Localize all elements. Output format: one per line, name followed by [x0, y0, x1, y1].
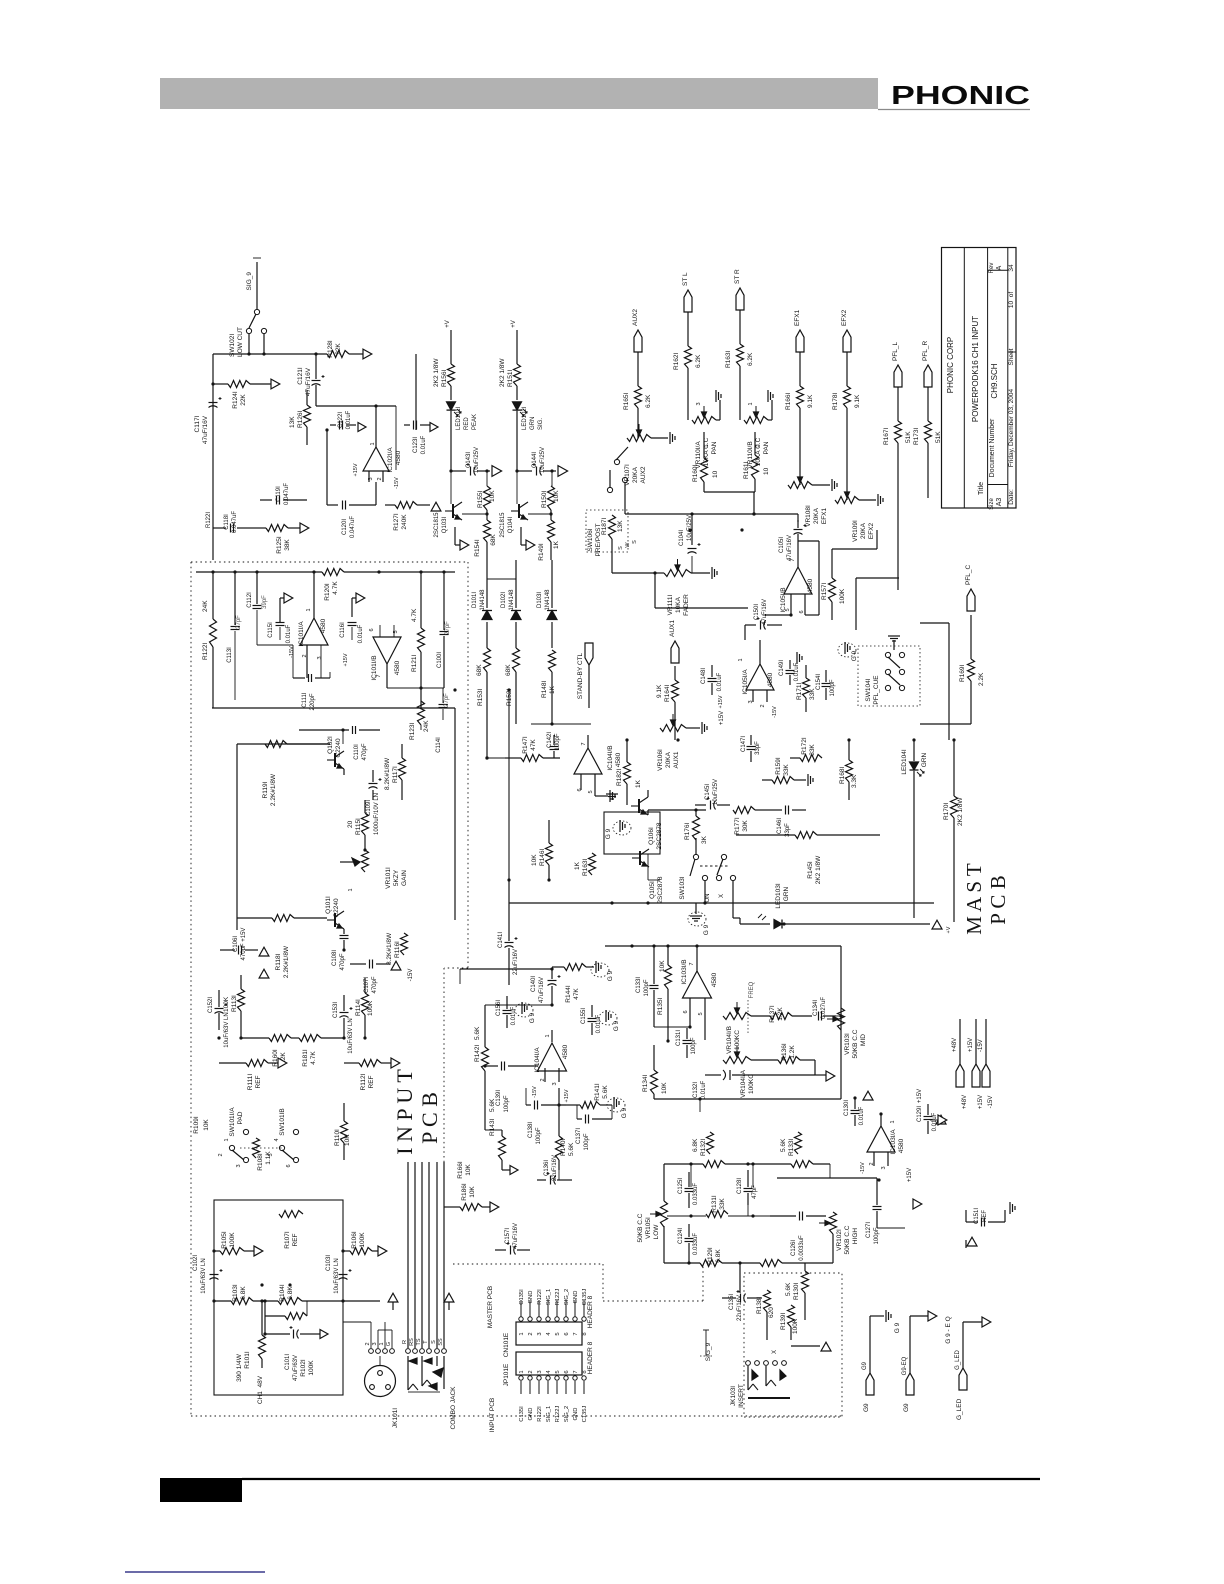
svg-text:R136I: R136I [781, 1043, 788, 1061]
svg-text:AUX2: AUX2 [632, 309, 639, 326]
combo jack body [408, 1356, 457, 1429]
svg-text:4580: 4580 [562, 1044, 569, 1059]
svg-text:R108I: R108I [257, 1153, 264, 1171]
svg-text:C120I: C120I [342, 519, 348, 535]
svg-text:0.01uF: 0.01uF [346, 410, 352, 429]
svg-text:22K: 22K [335, 343, 342, 355]
svg-text:22K: 22K [240, 394, 247, 406]
resistor R127I 240K [385, 502, 430, 531]
svg-text:C132I: C132I [693, 1082, 699, 1098]
svg-text:GAIN: GAIN [401, 870, 408, 886]
net AUX2 w/ R165I [623, 309, 652, 438]
resistor R139I 100K [780, 1305, 799, 1340]
svg-text:+15V: +15V [719, 711, 725, 725]
svg-text:0.047uF: 0.047uF [284, 483, 290, 505]
capacitor C147I 33pF [741, 735, 761, 762]
svg-text:REF: REF [255, 1075, 262, 1088]
svg-text:C138I: C138I [528, 1122, 534, 1138]
svg-text:1K: 1K [553, 540, 560, 549]
capacitor C116I 0.01uF [340, 622, 364, 643]
capacitor C140I 47uF/16V [460, 969, 561, 1005]
svg-text:+48V: +48V [962, 1095, 968, 1109]
svg-text:33K: 33K [719, 1198, 726, 1210]
svg-text:G_LED: G_LED [955, 1350, 961, 1370]
wire ic105b loop [856, 549, 899, 630]
svg-text:R103I: R103I [232, 1284, 239, 1302]
wire mast h2 [549, 875, 592, 880]
capacitor C119I 0.047uF [260, 483, 307, 505]
svg-text:R113I: R113I [231, 995, 238, 1012]
svg-text:R167I: R167I [883, 427, 890, 445]
net PFL_R w/ R173I [913, 340, 942, 498]
svg-text:3: 3 [537, 1332, 543, 1335]
svg-text:6.2K: 6.2K [695, 354, 702, 368]
svg-text:C134I: C134I [813, 1000, 819, 1016]
svg-text:PAD: PAD [237, 1111, 244, 1124]
svg-text:2: 2 [377, 477, 383, 480]
svg-text:C110I: C110I [354, 744, 360, 760]
resistor R157I 100K [821, 530, 877, 620]
svg-text:I N P U T: I N P U T [392, 1069, 417, 1155]
ground G9 R144I [591, 961, 614, 981]
svg-text:10K: 10K [531, 854, 538, 866]
resistor R134I 10K [642, 1045, 668, 1099]
svg-text:Document Number: Document Number [989, 418, 996, 477]
switch SW101I/A PAD [218, 1107, 249, 1168]
svg-text:-15V: -15V [289, 646, 295, 658]
svg-text:10KA: 10KA [675, 596, 682, 613]
ground R159I [808, 774, 813, 786]
svg-text:0.01uF: 0.01uF [358, 624, 364, 643]
svg-text:6: 6 [799, 610, 805, 613]
svg-text:6.8K: 6.8K [240, 1286, 247, 1300]
svg-text:50KB C.C: 50KB C.C [637, 1213, 644, 1242]
svg-text:2.2K#1/8W: 2.2K#1/8W [283, 945, 290, 978]
svg-text:REF: REF [292, 1233, 299, 1246]
svg-text:CH1 48V: CH1 48V [257, 1375, 264, 1404]
svg-text:R162I: R162I [673, 352, 680, 370]
resistor R151I 2K2 1/8W [499, 358, 521, 400]
svg-text:R157I: R157I [821, 582, 828, 600]
LED LED103I GRN [733, 883, 800, 928]
svg-text:C108I: C108I [332, 950, 338, 966]
resistor R111I REF [219, 1060, 278, 1091]
wire gain stage frame [212, 708, 455, 930]
svg-text:X: X [719, 894, 725, 898]
connector arrow R111I [278, 1058, 287, 1068]
ground IC104I/B [595, 790, 615, 802]
capacitor C135I 22uF/16V [722, 1290, 762, 1321]
svg-text:+15V: +15V [917, 1089, 923, 1103]
svg-text:C2240: C2240 [333, 898, 340, 918]
resistor R176I 3K [648, 808, 708, 844]
svg-text:38K: 38K [284, 539, 291, 551]
svg-text:C127I: C127I [866, 1222, 872, 1238]
svg-text:C114I: C114I [436, 737, 442, 753]
svg-text:R101I: R101I [244, 1351, 251, 1369]
svg-text:R124I: R124I [232, 391, 239, 409]
svg-text:C139I: C139I [496, 1090, 502, 1106]
connector arrow C129I [936, 1115, 946, 1124]
connector arrow jack feed1 [380, 1293, 398, 1322]
svg-text:0.01uF: 0.01uF [794, 662, 800, 681]
svg-text:R130I: R130I [793, 1282, 800, 1300]
svg-text:620: 620 [768, 1307, 775, 1318]
svg-text:8.2K#1/8W: 8.2K#1/8W [384, 757, 391, 790]
svg-text:+15V: +15V [353, 463, 359, 476]
label MAST PCB big [962, 863, 1010, 935]
transistor Q104I 2SC1815 [500, 440, 528, 538]
logo PHONIC [878, 80, 1030, 110]
svg-text:C148I: C148I [701, 668, 707, 684]
capacitor C104I 10uF/25V [679, 515, 701, 554]
wire C121 node [316, 404, 396, 470]
svg-text:R109I: R109I [193, 1116, 200, 1134]
svg-text:4.7K: 4.7K [411, 608, 418, 622]
svg-text:LED103I: LED103I [775, 883, 782, 908]
wire center long h1 [455, 689, 509, 691]
svg-text:Q105I: Q105I [649, 881, 656, 899]
svg-text:R186I: R186I [461, 1183, 468, 1201]
svg-text:C155I: C155I [581, 1008, 587, 1024]
capacitor C142I 100pF [547, 732, 561, 758]
svg-text:0.01uF: 0.01uF [511, 1006, 517, 1025]
svg-text:100K: 100K [367, 1000, 374, 1016]
svg-text:R149I: R149I [538, 543, 545, 561]
svg-text:24K: 24K [202, 600, 209, 612]
svg-text:1: 1 [519, 1332, 525, 1335]
svg-text:C119I: C119I [276, 486, 282, 502]
svg-text:2SC1815: 2SC1815 [500, 512, 506, 538]
resistor R137I 1.2K [751, 1005, 812, 1023]
resistor R120I 4.7K [322, 569, 455, 601]
svg-text:C131I: C131I [676, 1030, 682, 1046]
resistor R145I 2K2 1/8W [736, 832, 880, 885]
svg-text:3: 3 [755, 444, 761, 447]
svg-text:4580: 4580 [898, 1138, 905, 1153]
diode D101I 1N4148 [472, 579, 516, 648]
resistor R154I 68K [474, 520, 497, 579]
svg-text:ST R: ST R [734, 269, 741, 284]
resistor R117I 8.2K#1/8W [384, 744, 406, 800]
svg-text:SIG_9: SIG_9 [246, 272, 253, 291]
svg-text:R132I: R132I [700, 1138, 707, 1156]
svg-text:COMBO JACK: COMBO JACK [450, 1386, 457, 1430]
pot VR110I/A 10KA C.C PAN [692, 402, 718, 468]
svg-text:R156I: R156I [441, 369, 448, 387]
svg-text:2: 2 [365, 1342, 371, 1345]
capacitor C130I 0.01uF [844, 1098, 865, 1126]
svg-text:R121I: R121I [411, 654, 418, 672]
SW106I dotted box [586, 510, 628, 552]
svg-text:VR105I: VR105I [645, 1217, 652, 1239]
resistor R163I 1K [570, 853, 596, 876]
svg-text:39pF: 39pF [262, 595, 268, 609]
svg-text:R106I: R106I [351, 1231, 358, 1249]
svg-text:C150I: C150I [754, 604, 760, 620]
svg-text:+15V: +15V [718, 695, 724, 708]
resistor R146I 10K [531, 820, 553, 880]
svg-text:4: 4 [274, 1138, 280, 1141]
svg-text:+V: +V [946, 926, 952, 933]
net EFX1 w/ R166I [785, 309, 814, 485]
capacitor C102I 10uF/63V LN [193, 1255, 223, 1294]
svg-text:C117I: C117I [194, 415, 201, 432]
svg-text:1: 1 [224, 1138, 230, 1141]
connector arrow R125I [300, 523, 309, 533]
svg-text:R140I: R140I [560, 1138, 567, 1156]
capacitor C150I 47uF/16V [745, 599, 782, 630]
connector CN101E [503, 1289, 588, 1358]
svg-text:27pF: 27pF [444, 693, 450, 707]
resistor eq2 r4 [760, 1260, 782, 1267]
connector arrow C130I [863, 1091, 873, 1100]
svg-text:C154I: C154I [816, 674, 822, 690]
resistor R129I bus [700, 1260, 722, 1267]
wire fader chain [655, 567, 748, 608]
svg-text:SW106I: SW106I [587, 528, 594, 551]
svg-text:+15V: +15V [343, 653, 349, 666]
net +48V [952, 1019, 968, 1109]
svg-text:Friday, December 03, 2004: Friday, December 03, 2004 [1008, 388, 1015, 467]
svg-text:G 9: G 9 [703, 924, 710, 935]
svg-text:34: 34 [1008, 264, 1015, 272]
svg-text:R123I: R123I [409, 722, 416, 740]
svg-text:R120I: R120I [324, 583, 331, 601]
svg-text:4580: 4580 [395, 450, 402, 465]
svg-text:Size: Size [989, 498, 995, 510]
svg-text:33pF: 33pF [755, 741, 761, 755]
svg-text:0.01uF: 0.01uF [701, 1080, 707, 1099]
svg-text:R150I: R150I [541, 490, 548, 508]
capacitor C111I 220pF [293, 645, 330, 711]
ground G9 C155I [599, 1010, 620, 1031]
net PFL_L w/ R167I [883, 341, 912, 498]
svg-text:HEADER 8: HEADER 8 [587, 1341, 594, 1374]
svg-text:R170I: R170I [943, 802, 950, 820]
svg-text:VR104I/B: VR104I/B [726, 1026, 733, 1054]
switch SW101I/B [240, 1108, 299, 1167]
svg-text:R154I: R154I [474, 539, 481, 557]
svg-text:Q102I: Q102I [327, 736, 334, 754]
svg-text:C124I: C124I [678, 1228, 684, 1244]
wire mast bottom [652, 1094, 702, 1112]
resistor R164I 9.1K [656, 666, 679, 740]
svg-text:EFX1: EFX1 [821, 507, 828, 524]
connector JP101E [503, 1352, 588, 1422]
svg-text:CH9.SCH: CH9.SCH [990, 363, 999, 398]
ground G9 SW103 [688, 903, 710, 935]
svg-text:GND: GND [528, 1408, 534, 1421]
connector arrow C106I [259, 947, 269, 956]
svg-text:Date:: Date: [1008, 489, 1015, 505]
svg-text:-15V: -15V [772, 706, 778, 718]
svg-text:5KZY: 5KZY [393, 869, 400, 886]
svg-text:C111I: C111I [302, 692, 308, 707]
svg-text:R177I: R177I [734, 817, 741, 835]
svg-text:R128I: R128I [327, 340, 334, 358]
svg-text:10K: 10K [489, 490, 496, 502]
transistor Q105I 2SC2878 [604, 794, 664, 904]
svg-text:R139I: R139I [780, 1312, 787, 1330]
MASTER PCB dotted boundary [453, 1264, 703, 1301]
capacitor C139I 100pF [483, 1062, 538, 1113]
svg-text:47uF/16V: 47uF/16V [513, 1223, 519, 1249]
svg-text:51K: 51K [935, 431, 942, 443]
svg-text:6: 6 [369, 628, 375, 631]
svg-text:G 9: G 9 [607, 970, 614, 981]
net STR w/ R163I2 [725, 269, 754, 420]
connector arrow C144I [550, 466, 567, 486]
svg-text:PHONIC: PHONIC [891, 80, 1030, 110]
svg-text:1: 1 [370, 442, 376, 445]
svg-text:R141I: R141I [594, 1083, 601, 1101]
svg-text:2: 2 [528, 1370, 534, 1373]
capacitor C156I 0.01uF [496, 996, 517, 1028]
ground G9 Q106 [605, 820, 631, 839]
svg-text:100pF: 100pF [691, 1037, 697, 1054]
svg-text:EFX2: EFX2 [868, 522, 875, 539]
svg-text:10KA C.C: 10KA C.C [755, 437, 762, 466]
svg-text:8.2K#1/8W: 8.2K#1/8W [386, 932, 393, 965]
svg-text:1N4148: 1N4148 [545, 589, 551, 611]
resistor R170I 2K2 1/8W [943, 740, 964, 933]
svg-text:G 9: G 9 [851, 650, 858, 661]
svg-text:IC101I/A: IC101I/A [298, 621, 305, 647]
svg-text:100K: 100K [229, 1232, 236, 1248]
LED LED102I GRN SIG [513, 402, 545, 440]
svg-text:S: S [632, 540, 638, 544]
svg-text:9.1K: 9.1K [854, 394, 861, 408]
svg-text:C135I: C135I [729, 1294, 735, 1310]
svg-text:R169I: R169I [959, 664, 966, 682]
resistor R128I 22K [327, 340, 363, 358]
svg-text:100pF: 100pF [874, 1227, 880, 1244]
svg-text:FREQ: FREQ [749, 981, 755, 998]
capacitor C117I 47uF/16V [194, 382, 222, 444]
svg-text:27pF: 27pF [236, 615, 242, 629]
svg-text:C100I: C100I [437, 652, 443, 668]
connector arrow R106I [378, 1246, 387, 1256]
svg-text:C157I: C157I [505, 1228, 511, 1244]
resistor R181I 4.7K [291, 1035, 345, 1067]
svg-text:SIG_1: SIG_1 [546, 1406, 552, 1422]
capacitor C146I 33pF [770, 806, 806, 837]
svg-text:47uF/16V: 47uF/16V [762, 599, 768, 625]
INPUT PCB dotted boundary [191, 562, 842, 1416]
svg-text:10K: 10K [659, 960, 666, 972]
svg-text:Sheet: Sheet [1008, 348, 1015, 365]
svg-text:4.7K: 4.7K [332, 581, 339, 595]
svg-text:GND: GND [573, 1291, 579, 1304]
net G_LED bottom [955, 1317, 991, 1420]
svg-text:4: 4 [546, 1370, 552, 1374]
svg-text:0.0033uF: 0.0033uF [799, 1235, 805, 1261]
ground VR111I [691, 567, 717, 579]
svg-text:STAND-BY CTL: STAND-BY CTL [577, 652, 584, 699]
svg-text:C135J: C135J [582, 1406, 588, 1423]
svg-text:68K: 68K [490, 534, 497, 546]
svg-text:R127I: R127I [393, 513, 400, 531]
svg-text:R116I: R116I [394, 941, 401, 958]
svg-text:3: 3 [537, 1370, 543, 1373]
switch SW106I contacts [614, 447, 798, 522]
svg-text:+V: +V [511, 320, 517, 328]
svg-text:C141I: C141I [498, 932, 504, 948]
svg-text:6: 6 [564, 1332, 570, 1335]
wire eq2 bottom bus [664, 1205, 833, 1293]
label R109I 10K [193, 1116, 210, 1134]
resistor R126I 13K [289, 390, 311, 445]
svg-text:JK101I: JK101I [392, 1408, 399, 1428]
resistor R115I 20 [347, 800, 369, 850]
svg-text:+15V: +15V [968, 1038, 974, 1052]
capacitor C137I 100pF [576, 1105, 612, 1151]
svg-text:S: S [618, 546, 624, 550]
svg-text:10uF/25V: 10uF/25V [540, 447, 546, 473]
svg-text:R105I: R105I [221, 1231, 228, 1249]
svg-text:IC102I/A: IC102I/A [387, 447, 394, 473]
svg-text:0.01uF: 0.01uF [717, 672, 723, 691]
svg-text:R143I: R143I [489, 1118, 496, 1136]
svg-text:7: 7 [689, 962, 695, 965]
svg-text:M A S T: M A S T [962, 863, 986, 935]
svg-text:20KA: 20KA [665, 751, 672, 768]
svg-text:R176I: R176I [684, 822, 691, 840]
label +15V VR106 [719, 711, 725, 725]
svg-text:0.047uF: 0.047uF [350, 516, 356, 538]
svg-text:C116I: C116I [340, 622, 346, 638]
wire eq out right [836, 1014, 843, 1017]
svg-text:C144I: C144I [532, 452, 538, 468]
svg-text:1: 1 [748, 402, 754, 405]
svg-text:R173I: R173I [913, 427, 920, 445]
capacitor C112I 39pF [247, 572, 293, 645]
svg-text:PFL_R: PFL_R [922, 340, 929, 361]
svg-text:A: A [996, 265, 1003, 270]
capacitor C127I 100pF [777, 1168, 913, 1245]
svg-text:22uF/16V: 22uF/16V [513, 949, 519, 975]
ground VR109I [859, 494, 883, 506]
svg-text:C133I: C133I [636, 977, 642, 993]
svg-text:G9-EQ: G9-EQ [902, 1356, 908, 1375]
svg-text:C152I: C152I [208, 997, 214, 1013]
ground G9 IC105A [838, 642, 858, 661]
svg-text:GRN: GRN [783, 886, 790, 901]
svg-text:1: 1 [738, 658, 744, 661]
svg-text:100K: 100K [308, 1360, 315, 1376]
resistor R123I 24K [409, 701, 430, 740]
connector arrow C115I [280, 593, 293, 622]
node SIG_9 top [246, 258, 261, 309]
wire input bus [213, 352, 327, 548]
resistor R168I 3.3K [839, 740, 858, 800]
connector arrow R112I [391, 1058, 400, 1068]
svg-text:VR102I: VR102I [836, 1229, 843, 1251]
svg-text:R122I: R122I [206, 512, 212, 528]
svg-text:R122J: R122J [555, 1289, 561, 1306]
svg-text:LED101I: LED101I [456, 406, 462, 430]
capacitor C107I 470pF [350, 960, 390, 994]
svg-text:RED: RED [464, 417, 470, 430]
arrow Q104I emitter [521, 527, 535, 550]
svg-text:10uF/25V: 10uF/25V [474, 447, 480, 473]
svg-text:R171I: R171I [796, 682, 803, 700]
svg-text:4580: 4580 [807, 578, 814, 593]
connector arrow C116I [352, 593, 365, 617]
svg-text:GND: GND [573, 1408, 579, 1421]
svg-text:100pF: 100pF [555, 733, 561, 750]
